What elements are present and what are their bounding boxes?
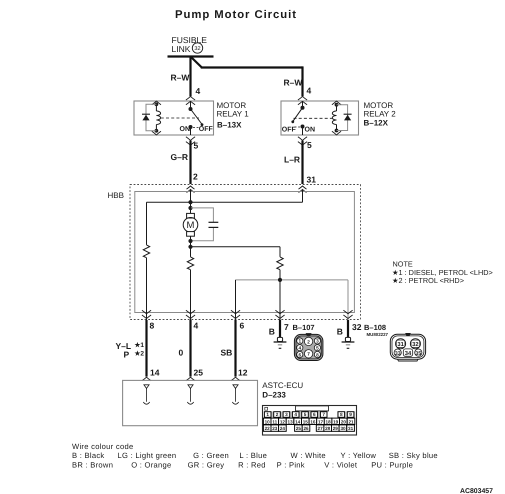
svg-text:29: 29: [333, 426, 339, 431]
svg-text:R–W: R–W: [171, 73, 191, 83]
svg-text:0: 0: [179, 348, 184, 358]
connector chevron ECU pin25: [186, 377, 195, 381]
svg-text:L–R: L–R: [284, 154, 300, 164]
svg-text:4: 4: [294, 412, 297, 417]
relay 1 switch blade: [191, 109, 202, 124]
relay 1 coil chevron bottom: [152, 131, 161, 135]
svg-text:V : Violet: V : Violet: [324, 461, 358, 470]
node motor top junction: [188, 206, 192, 210]
svg-text:5: 5: [307, 140, 312, 150]
relay 1 switch pivot: [189, 107, 193, 111]
svg-text:7: 7: [307, 352, 310, 357]
svg-text:G : Green: G : Green: [193, 451, 229, 460]
wire to ECU pin14: [145, 320, 147, 377]
ECU connector D-233 drawing: [263, 406, 357, 436]
svg-text:G–R: G–R: [171, 152, 188, 162]
svg-text:25: 25: [296, 426, 302, 431]
svg-text:31: 31: [348, 426, 354, 431]
relay 1 box: [134, 101, 214, 135]
svg-text:19: 19: [333, 419, 339, 424]
svg-text:OFF: OFF: [282, 127, 297, 134]
connector chevron ECU pin14: [142, 377, 151, 381]
svg-text:W : White: W : White: [291, 451, 326, 460]
svg-text:B: B: [337, 326, 343, 336]
resistor right: [277, 257, 283, 270]
capacitor C: [209, 222, 219, 227]
svg-text:34: 34: [405, 350, 412, 357]
svg-text:23: 23: [272, 426, 278, 431]
relay 2 switch pivot: [301, 106, 305, 110]
connector chevrons HBB pin31: [299, 186, 307, 193]
svg-text:24: 24: [280, 426, 286, 431]
svg-text:16: 16: [310, 419, 316, 424]
connector chevrons HBB pin2: [187, 186, 195, 193]
connector chevrons HBB pin32: [343, 310, 352, 318]
svg-text:30: 30: [340, 426, 346, 431]
node capacitor return junction: [188, 239, 192, 243]
relay 2 output wire: [302, 127, 304, 136]
wire to right resistor: [191, 246, 281, 248]
svg-text:HBB: HBB: [108, 191, 124, 200]
svg-text:35: 35: [415, 351, 421, 357]
svg-text:33: 33: [395, 351, 401, 357]
svg-text:27: 27: [318, 426, 324, 431]
relay 2 dashed control line: [294, 117, 333, 119]
svg-text:2: 2: [276, 412, 279, 417]
connector chevron ECU pin12: [231, 377, 240, 381]
relay 1 diode: [142, 114, 150, 120]
svg-text:31: 31: [307, 175, 317, 185]
connector chevrons HBB pin6: [231, 310, 240, 318]
wire middle column lower: [190, 270, 192, 320]
svg-text:★2 : PETROL <RHD>: ★2 : PETROL <RHD>: [392, 276, 464, 285]
svg-text:3: 3: [285, 412, 288, 417]
svg-text:7: 7: [284, 322, 289, 332]
wire L-R: [301, 141, 303, 184]
svg-text:8: 8: [316, 352, 319, 357]
relay 2 coil chevron bottom: [332, 131, 341, 135]
svg-text:12: 12: [238, 367, 248, 377]
wire pin2 inside HBB: [190, 190, 192, 214]
relay 1 coil chevron top: [152, 101, 161, 105]
relay 2 name: [364, 101, 397, 128]
svg-text:ON: ON: [180, 126, 191, 133]
svg-text:RELAY 1: RELAY 1: [217, 110, 250, 119]
svg-text:6: 6: [240, 321, 245, 331]
svg-text:BR : Brown: BR : Brown: [72, 461, 113, 470]
svg-text:12: 12: [280, 419, 286, 424]
relay 1 dashed contact line: [193, 127, 199, 129]
wire right resistor top: [279, 247, 281, 257]
svg-text:4: 4: [196, 86, 201, 96]
connector chevrons relay2 pin5: [298, 137, 307, 145]
relay 2 dashed contact line: [295, 126, 301, 128]
svg-text:11: 11: [272, 419, 277, 424]
connector chevrons HBB pin4: [186, 310, 195, 318]
svg-text:17: 17: [318, 419, 324, 424]
svg-text:OFF: OFF: [199, 126, 214, 133]
svg-text:B : Black: B : Black: [72, 451, 104, 460]
svg-text:31: 31: [397, 341, 404, 348]
svg-text:28: 28: [325, 426, 331, 431]
wire feed right (R-W): [301, 66, 303, 96]
svg-text:★2: ★2: [135, 350, 145, 358]
relay 2 coil chevron top: [332, 101, 341, 105]
connector chevrons HBB pin8: [142, 310, 151, 318]
svg-text:GR : Grey: GR : Grey: [188, 461, 225, 470]
svg-text:B: B: [269, 326, 275, 336]
svg-text:8: 8: [150, 321, 155, 331]
svg-text:26: 26: [303, 426, 309, 431]
motor M: [183, 213, 198, 236]
svg-text:B–13X: B–13X: [217, 121, 242, 130]
svg-text:1: 1: [298, 339, 301, 344]
wire left column lower: [146, 258, 148, 320]
svg-text:22: 22: [265, 426, 271, 431]
svg-text:MOTOR: MOTOR: [364, 101, 394, 110]
svg-text:SB : Sky blue: SB : Sky blue: [389, 451, 438, 460]
svg-text:ON: ON: [305, 127, 316, 134]
svg-text:15: 15: [303, 419, 309, 424]
svg-text:9: 9: [349, 412, 352, 417]
svg-text:4: 4: [307, 86, 312, 96]
B-108 connector drawing: [390, 333, 425, 361]
svg-text:★1: ★1: [135, 341, 145, 349]
wire right column lower: [279, 270, 281, 320]
wire battery feed left (R-W): [189, 57, 191, 97]
wire branch diagonal: [191, 57, 202, 68]
relay 1 OFF contact: [201, 123, 204, 126]
label P star2: [124, 350, 145, 360]
svg-text:18: 18: [326, 419, 332, 424]
ECU name: [262, 381, 303, 400]
node gray bus junction: [278, 278, 282, 282]
relay 1 name: [217, 101, 250, 130]
relay 2 switch wire: [302, 101, 304, 108]
connector chevrons HBB pin7: [275, 310, 284, 318]
svg-text:5: 5: [304, 412, 307, 417]
wire pin6 column: [235, 280, 237, 320]
note block: [392, 260, 493, 286]
svg-text:R : Red: R : Red: [238, 461, 266, 470]
svg-text:5: 5: [316, 346, 319, 351]
svg-text:20: 20: [341, 419, 347, 424]
relay 1 output wire: [190, 127, 192, 135]
svg-text:32: 32: [194, 46, 200, 52]
resistor middle: [187, 257, 193, 270]
relay 2 coil: [332, 103, 338, 133]
ECU terminal 12: [232, 385, 238, 404]
svg-text:L : Blue: L : Blue: [239, 451, 267, 460]
svg-text:MU802227: MU802227: [367, 332, 389, 337]
wire colour code legend: [72, 442, 438, 470]
resistor left: [143, 245, 149, 258]
connector chevrons relay1 pin4: [186, 96, 195, 104]
svg-text:2: 2: [193, 172, 198, 182]
svg-text:B–12X: B–12X: [364, 119, 389, 128]
svg-text:14: 14: [295, 419, 301, 424]
relay 1 diode branch: [146, 104, 156, 131]
wire to ECU pin12: [234, 320, 236, 377]
node bus junction: [188, 200, 192, 204]
ground left: [274, 337, 287, 348]
svg-text:4: 4: [194, 321, 199, 331]
wire gray bus: [236, 279, 349, 281]
fusible link number 32: [192, 43, 202, 53]
wire B ground left: [279, 320, 281, 337]
relay 1 coil: [155, 102, 161, 132]
fusible link bar: [168, 55, 214, 57]
wire B ground right: [347, 320, 349, 337]
svg-text:Y : Yellow: Y : Yellow: [341, 451, 377, 460]
svg-text:21: 21: [348, 419, 354, 424]
svg-text:O : Orange: O : Orange: [131, 461, 171, 470]
svg-text:8: 8: [340, 412, 343, 417]
svg-text:6: 6: [298, 352, 301, 357]
ASTC-ECU box: [123, 380, 258, 425]
relay 2 diode branch: [337, 105, 348, 131]
B-107 connector drawing: [294, 333, 323, 360]
svg-text:1: 1: [266, 412, 269, 417]
wire branch horizontal to relay 2: [201, 66, 303, 68]
svg-text:2: 2: [307, 339, 310, 344]
svg-text:ASTC-ECU: ASTC-ECU: [262, 381, 303, 390]
svg-text:PU : Purple: PU : Purple: [371, 461, 413, 470]
fusible link label: [172, 35, 208, 54]
svg-text:P: P: [124, 350, 130, 360]
svg-text:6: 6: [313, 412, 316, 417]
relay 2 OFF contact: [291, 120, 294, 123]
svg-text:R–W: R–W: [284, 78, 304, 88]
relay 2 ON contact: [301, 125, 305, 129]
node resistor feed junction: [188, 245, 192, 249]
svg-text:MOTOR: MOTOR: [217, 101, 247, 110]
relay 2 switch blade: [293, 108, 303, 122]
svg-text:RELAY 2: RELAY 2: [364, 110, 397, 119]
wire to ECU pin25: [189, 320, 191, 377]
wire motor bottom: [190, 236, 192, 257]
svg-text:P : Pink: P : Pink: [277, 461, 305, 470]
relay 1 ON contact: [189, 125, 193, 129]
svg-text:Pump Motor Circuit: Pump Motor Circuit: [175, 9, 297, 21]
svg-text:32: 32: [412, 341, 418, 348]
svg-text:4: 4: [298, 346, 301, 351]
svg-text:B–108: B–108: [364, 323, 386, 332]
svg-text:AC803457: AC803457: [460, 488, 493, 494]
connector chevrons relay1 pin5: [186, 137, 195, 145]
svg-text:10: 10: [265, 419, 271, 424]
svg-text:3: 3: [316, 339, 319, 344]
wire bus horizontal: [147, 201, 303, 203]
ECU terminal 25: [187, 385, 193, 404]
HBB dashed box: [130, 185, 361, 320]
svg-text:13: 13: [288, 419, 294, 424]
svg-text:Wire colour code: Wire colour code: [72, 442, 133, 451]
relay 2 box: [281, 101, 359, 135]
svg-text:LINK: LINK: [172, 44, 191, 54]
svg-text:B–107: B–107: [293, 323, 315, 332]
svg-text:32: 32: [352, 322, 362, 332]
svg-text:5: 5: [194, 141, 199, 151]
ECU terminal 14: [143, 385, 149, 404]
relay 1 switch wire: [190, 101, 192, 109]
svg-text:M: M: [187, 220, 195, 231]
relay 1 dashed control line: [161, 117, 199, 119]
relay 2 diode: [344, 114, 352, 120]
connector chevrons relay2 pin4: [298, 96, 307, 104]
svg-text:D–233: D–233: [262, 391, 286, 400]
svg-text:25: 25: [194, 367, 204, 377]
label Y-L star1: [116, 341, 145, 351]
svg-text:7: 7: [322, 412, 325, 417]
capacitor branch wires: [191, 208, 213, 241]
wire G-R: [189, 141, 191, 184]
wire pin32 column: [347, 280, 349, 320]
wire pin31 inside HBB: [302, 190, 304, 202]
svg-text:LG : Light green: LG : Light green: [118, 451, 177, 460]
wire left column upper: [146, 202, 148, 245]
ground right: [342, 337, 355, 348]
svg-text:14: 14: [150, 367, 160, 377]
svg-text:SB: SB: [221, 348, 233, 358]
HBB inner solid box: [135, 192, 355, 313]
